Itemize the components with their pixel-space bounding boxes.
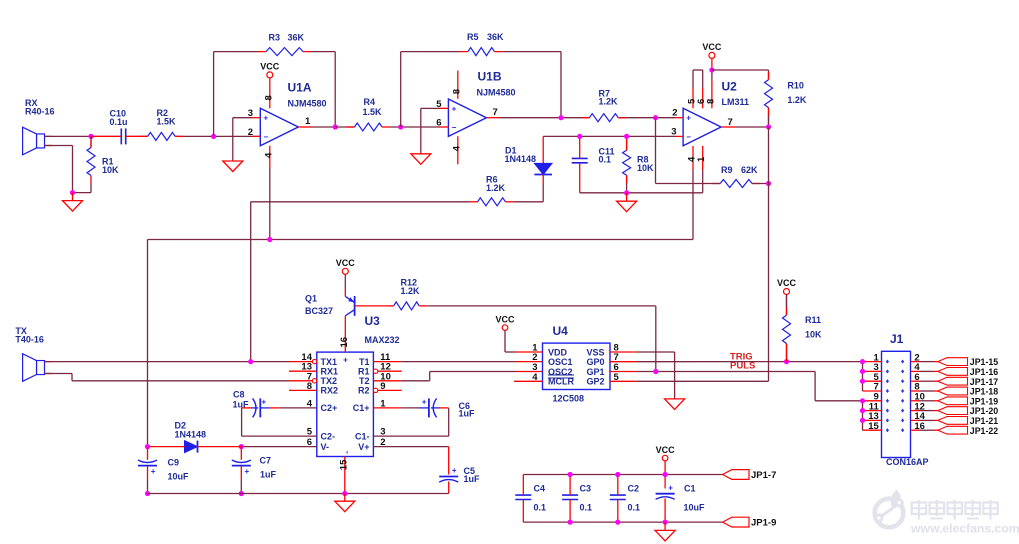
svg-text:JP1-16: JP1-16 [970, 367, 998, 377]
capacitor C7 [232, 456, 277, 480]
wire [712, 69, 769, 71]
node [145, 491, 150, 496]
capacitor C5 [439, 466, 480, 484]
pin 4 stub [514, 380, 543, 382]
wire [242, 408, 317, 436]
U3 label RX1 [321, 366, 339, 376]
OSC2 underline [548, 374, 574, 376]
wire [147, 447, 149, 494]
svg-text:1: 1 [305, 116, 311, 127]
pin 9 [380, 381, 385, 392]
svg-text:JP1-18: JP1-18 [970, 387, 998, 397]
node [709, 67, 714, 72]
wire [431, 407, 449, 409]
svg-text:GP0: GP0 [586, 357, 604, 367]
pin 7 stub [610, 361, 636, 363]
net PULS [730, 360, 755, 371]
svg-text:1.2K: 1.2K [486, 183, 506, 193]
wire [636, 371, 815, 373]
resistor R5 [460, 32, 504, 55]
pin 7 [486, 107, 499, 118]
node [860, 359, 865, 364]
capacitor C9 [138, 458, 189, 482]
node [615, 520, 620, 525]
wire [692, 170, 694, 240]
pin 10 [911, 392, 938, 403]
wire [147, 240, 149, 447]
node [267, 237, 272, 242]
wire [626, 175, 628, 193]
svg-text:8: 8 [451, 89, 462, 94]
MCLR overline [548, 377, 574, 379]
capacitor C11 [572, 146, 615, 164]
pin 8 [705, 70, 716, 108]
pin 8 [307, 381, 312, 392]
capacitor C2 [610, 483, 640, 512]
svg-text:NJM4580: NJM4580 [477, 88, 516, 98]
svg-text:10K: 10K [102, 165, 119, 175]
svg-text:1uF: 1uF [464, 474, 481, 484]
svg-text:R1: R1 [358, 366, 370, 376]
svg-text:16: 16 [339, 337, 350, 348]
wire [664, 522, 666, 530]
pin 11 [863, 401, 882, 412]
wire [702, 170, 704, 193]
wire [240, 447, 242, 494]
svg-text:1.2K: 1.2K [787, 95, 807, 105]
svg-text:RX2: RX2 [321, 386, 339, 396]
wire [448, 447, 450, 475]
wire [815, 372, 862, 401]
pin 14 [911, 411, 938, 422]
node [398, 124, 403, 129]
svg-text:JP1-19: JP1-19 [970, 396, 998, 406]
port JP1-22 [938, 426, 998, 436]
wire [214, 51, 336, 53]
node [624, 134, 629, 139]
pin 5 [863, 372, 882, 383]
resistor R7 [581, 88, 626, 121]
pin 4 [451, 136, 462, 164]
op-amp U1A [260, 80, 326, 145]
svg-text:U1B: U1B [478, 70, 502, 84]
node [70, 190, 75, 195]
connector J1 CON16AP [882, 332, 929, 467]
svg-text:MAX232: MAX232 [365, 335, 400, 345]
VCC C1 [656, 445, 676, 475]
pin 4 [687, 146, 698, 170]
wire [90, 184, 92, 193]
svg-text:+: + [151, 467, 156, 476]
svg-text:R11: R11 [805, 315, 821, 325]
pin 3 [380, 427, 385, 438]
pin 1 [298, 116, 311, 127]
svg-text:VCC: VCC [336, 258, 356, 268]
svg-text:−: − [264, 132, 269, 141]
wire [636, 352, 674, 399]
pin 14 bubble [289, 359, 317, 363]
node [145, 444, 150, 449]
VCC U4 [495, 314, 516, 352]
svg-text:T2: T2 [359, 376, 370, 386]
svg-text:2: 2 [248, 127, 253, 138]
wire [373, 408, 448, 436]
pin 2 [911, 352, 938, 363]
svg-text:C4: C4 [534, 483, 546, 493]
port JP1-9 [723, 517, 777, 528]
pin 7 [863, 382, 882, 393]
wire [636, 361, 862, 363]
svg-text:U4: U4 [553, 324, 569, 338]
node [663, 472, 668, 477]
wire [693, 69, 703, 71]
svg-text:C8: C8 [233, 389, 245, 399]
svg-text:+: + [452, 466, 457, 475]
node [860, 379, 865, 384]
node [860, 408, 865, 413]
IC U4 12C508 [543, 324, 611, 403]
svg-text:1uF: 1uF [260, 469, 277, 479]
wire [752, 183, 769, 185]
pin 5 [687, 70, 698, 108]
U3 label C1- [355, 431, 370, 441]
pin 10 stub [373, 380, 400, 382]
svg-text:R40-16: R40-16 [25, 107, 55, 117]
svg-text:JP1-7: JP1-7 [751, 470, 776, 481]
wire [655, 306, 657, 372]
node [342, 491, 347, 496]
U4 label OSC2 [548, 367, 573, 377]
pin 12 [380, 362, 391, 373]
svg-text:VCC: VCC [777, 278, 797, 288]
ground [63, 201, 83, 212]
wire [580, 192, 703, 194]
capacitor C8 [233, 389, 267, 417]
svg-text:C3: C3 [580, 483, 592, 493]
node [577, 134, 582, 139]
pin 8 [263, 81, 274, 108]
svg-text:R2: R2 [358, 386, 370, 396]
svg-text:JP1-21: JP1-21 [970, 416, 998, 426]
wire [420, 108, 422, 153]
U3 label T1 [359, 357, 370, 367]
node [860, 398, 865, 403]
pin 16 [339, 330, 350, 352]
U3 label T2 [359, 376, 370, 386]
node [860, 418, 865, 423]
svg-text:+: + [422, 398, 427, 407]
svg-text:2: 2 [672, 108, 677, 119]
pin 6 [307, 437, 312, 448]
svg-text:10uF: 10uF [684, 503, 706, 513]
wire [862, 401, 864, 430]
svg-text:0.1: 0.1 [599, 155, 612, 165]
wire [786, 352, 788, 362]
pin 1 [696, 146, 707, 170]
wire [373, 407, 429, 409]
pin 8 stub [610, 351, 636, 353]
svg-text:R3: R3 [269, 33, 281, 43]
ground [223, 161, 243, 172]
svg-text:4: 4 [263, 152, 274, 158]
U3 label V- [321, 442, 330, 452]
svg-text:C1-: C1- [355, 431, 370, 441]
svg-text:15: 15 [868, 421, 879, 432]
resistor R3 [258, 33, 311, 56]
wire [499, 117, 589, 119]
svg-text:CON16AP: CON16AP [886, 457, 929, 467]
svg-text:JP1-22: JP1-22 [970, 426, 998, 436]
node [239, 444, 244, 449]
pin 6 [696, 70, 707, 108]
wire [656, 183, 721, 185]
wire [617, 475, 619, 523]
node [558, 115, 563, 120]
wire [175, 135, 260, 137]
pin 5 stub [610, 380, 636, 382]
svg-text:6: 6 [436, 118, 441, 129]
U3 label C1+ [353, 403, 370, 413]
svg-text:T40-16: T40-16 [15, 335, 44, 345]
svg-text:TX2: TX2 [321, 376, 338, 386]
svg-text:U2: U2 [722, 80, 738, 94]
svg-text:J1: J1 [890, 332, 904, 346]
svg-text:Q1: Q1 [305, 293, 317, 303]
wire [516, 361, 543, 363]
pin 3 [671, 127, 683, 138]
pin 13 [301, 362, 312, 373]
U3 label RX2 [321, 386, 339, 396]
U3 label C2- [321, 431, 336, 441]
svg-text:15: 15 [338, 459, 349, 470]
svg-text:+: + [262, 398, 267, 407]
resistor R11 [783, 307, 823, 351]
resistor R1 [87, 140, 119, 184]
op-amp U1B [448, 70, 515, 137]
wire [522, 475, 524, 523]
wire [421, 107, 440, 109]
node [88, 134, 93, 139]
node [766, 124, 771, 129]
pin 15 [338, 457, 349, 494]
resistor R6 [470, 175, 514, 206]
net TRIG [730, 351, 753, 362]
wire [355, 305, 386, 307]
wire [618, 117, 675, 119]
U3 label TX1 [321, 357, 338, 367]
pin 4 [307, 398, 313, 409]
pin 11 stub [373, 361, 400, 363]
wire [242, 407, 280, 409]
VCC R11 [777, 278, 797, 307]
pin 1 stub [516, 351, 543, 353]
svg-text:1.2K: 1.2K [599, 97, 619, 107]
U4 label VSS [586, 347, 604, 357]
wire [768, 116, 770, 127]
wire [768, 70, 770, 80]
node [653, 369, 658, 374]
wire [126, 135, 148, 137]
U3 label R2 [358, 386, 370, 396]
svg-text:7: 7 [493, 107, 498, 118]
wire [311, 126, 335, 128]
pin 12 bubble [373, 369, 401, 373]
wire [401, 51, 561, 53]
capacitor C10 [110, 108, 128, 144]
svg-text:VCC: VCC [656, 445, 676, 455]
svg-text:C1: C1 [684, 483, 696, 493]
ground [665, 399, 685, 410]
svg-text:VCC: VCC [260, 61, 280, 71]
svg-text:www.elecfans.com: www.elecfans.com [910, 522, 1019, 536]
node [333, 124, 338, 129]
svg-text:4: 4 [451, 145, 462, 151]
svg-text:+: + [245, 467, 250, 476]
wire [344, 494, 346, 502]
VCC U2 [702, 42, 722, 70]
U4 label VDD [548, 347, 568, 357]
diode D2 [175, 420, 207, 452]
svg-text:C1+: C1+ [353, 403, 370, 413]
svg-text:R4: R4 [364, 97, 376, 107]
port JP1-20 [938, 406, 998, 416]
wire [279, 407, 317, 409]
svg-text:8: 8 [263, 95, 274, 100]
svg-text:+: + [686, 114, 691, 123]
svg-text:36K: 36K [288, 33, 305, 43]
wire [233, 117, 252, 119]
port JP1-16 [938, 367, 998, 377]
svg-text:1uF: 1uF [459, 409, 476, 419]
wire [373, 446, 448, 448]
node [860, 369, 865, 374]
wire [241, 446, 316, 448]
svg-text:C9: C9 [168, 458, 180, 468]
pin 6 [911, 372, 938, 383]
wire [664, 475, 666, 523]
pin 7 [614, 352, 619, 363]
wire [250, 202, 252, 362]
svg-text:JP1-17: JP1-17 [970, 377, 998, 387]
node [784, 359, 789, 364]
port JP1-15 [938, 357, 998, 367]
node [663, 520, 668, 525]
U4 label MCLR [548, 377, 574, 387]
svg-text:V+: V+ [358, 442, 369, 452]
wire [90, 136, 92, 147]
wire [72, 193, 74, 201]
svg-text:1.5K: 1.5K [157, 116, 177, 126]
wire [213, 52, 215, 137]
wire [269, 168, 271, 240]
U4 label GP0 [586, 357, 604, 367]
VCC Q1 [336, 258, 356, 289]
node [653, 115, 658, 120]
pin 14 [301, 352, 312, 363]
pin 7 bubble [289, 379, 317, 383]
U3 label TX2 [321, 376, 338, 386]
svg-text:0.1: 0.1 [534, 503, 547, 513]
pin 8 [451, 71, 462, 99]
svg-text:12C508: 12C508 [553, 393, 585, 403]
IC U3 MAX232 [317, 314, 400, 456]
VCC U1A [260, 61, 280, 81]
wire [523, 521, 722, 523]
port JP1-18 [938, 387, 998, 397]
pin 1 [532, 343, 538, 354]
pin 16 [911, 421, 938, 432]
svg-text:LM311: LM311 [722, 97, 750, 107]
node [239, 491, 244, 496]
wire [427, 305, 656, 307]
node [568, 472, 573, 477]
wire [45, 374, 290, 381]
svg-text:1.2K: 1.2K [401, 286, 421, 296]
wire [73, 192, 92, 194]
node [248, 359, 253, 364]
pin 13 [863, 411, 882, 422]
svg-text:T1: T1 [359, 357, 370, 367]
TX speaker TX T40-16 [15, 326, 52, 381]
svg-text:TX1: TX1 [321, 357, 338, 367]
wire [560, 52, 562, 118]
wire [148, 239, 694, 241]
svg-text:R9: R9 [721, 165, 733, 175]
pin 8 [614, 343, 619, 354]
wire [400, 52, 402, 127]
wire [401, 372, 516, 381]
resistor R9 [712, 165, 760, 188]
svg-text:BC327: BC327 [305, 306, 333, 316]
svg-text:R10: R10 [787, 80, 804, 90]
port JP1-7 [723, 470, 777, 481]
svg-text:C2+: C2+ [321, 403, 338, 413]
diode D1 [505, 136, 553, 183]
svg-text:JP1-15: JP1-15 [970, 357, 998, 367]
watermark text [910, 500, 1019, 536]
pin 13 stub [289, 370, 317, 372]
wire [636, 380, 768, 382]
svg-text:1N4148: 1N4148 [175, 429, 207, 439]
wire [569, 475, 571, 523]
svg-text:VCC: VCC [495, 314, 515, 324]
wire [45, 135, 122, 137]
U3 label V+ [358, 442, 369, 452]
svg-text:VSS: VSS [586, 347, 604, 357]
pin 6 [614, 362, 619, 373]
wire [45, 146, 73, 193]
pin 6 stub [610, 371, 636, 373]
wire [148, 493, 449, 495]
ground [411, 154, 431, 165]
pin 5 [436, 99, 448, 110]
svg-text:OSC1: OSC1 [548, 357, 573, 367]
wire [768, 127, 770, 184]
pin 4 [911, 362, 938, 373]
wire [523, 474, 722, 476]
wire [232, 118, 234, 161]
svg-text:−: − [452, 123, 457, 132]
wire [786, 295, 788, 316]
wire [626, 136, 628, 142]
capacitor C3 [562, 483, 592, 512]
port JP1-17 [938, 377, 998, 387]
wire [626, 136, 628, 150]
wire [655, 118, 657, 184]
resistor R10 [765, 72, 807, 116]
pin 15 [863, 421, 882, 432]
wire [390, 126, 440, 128]
